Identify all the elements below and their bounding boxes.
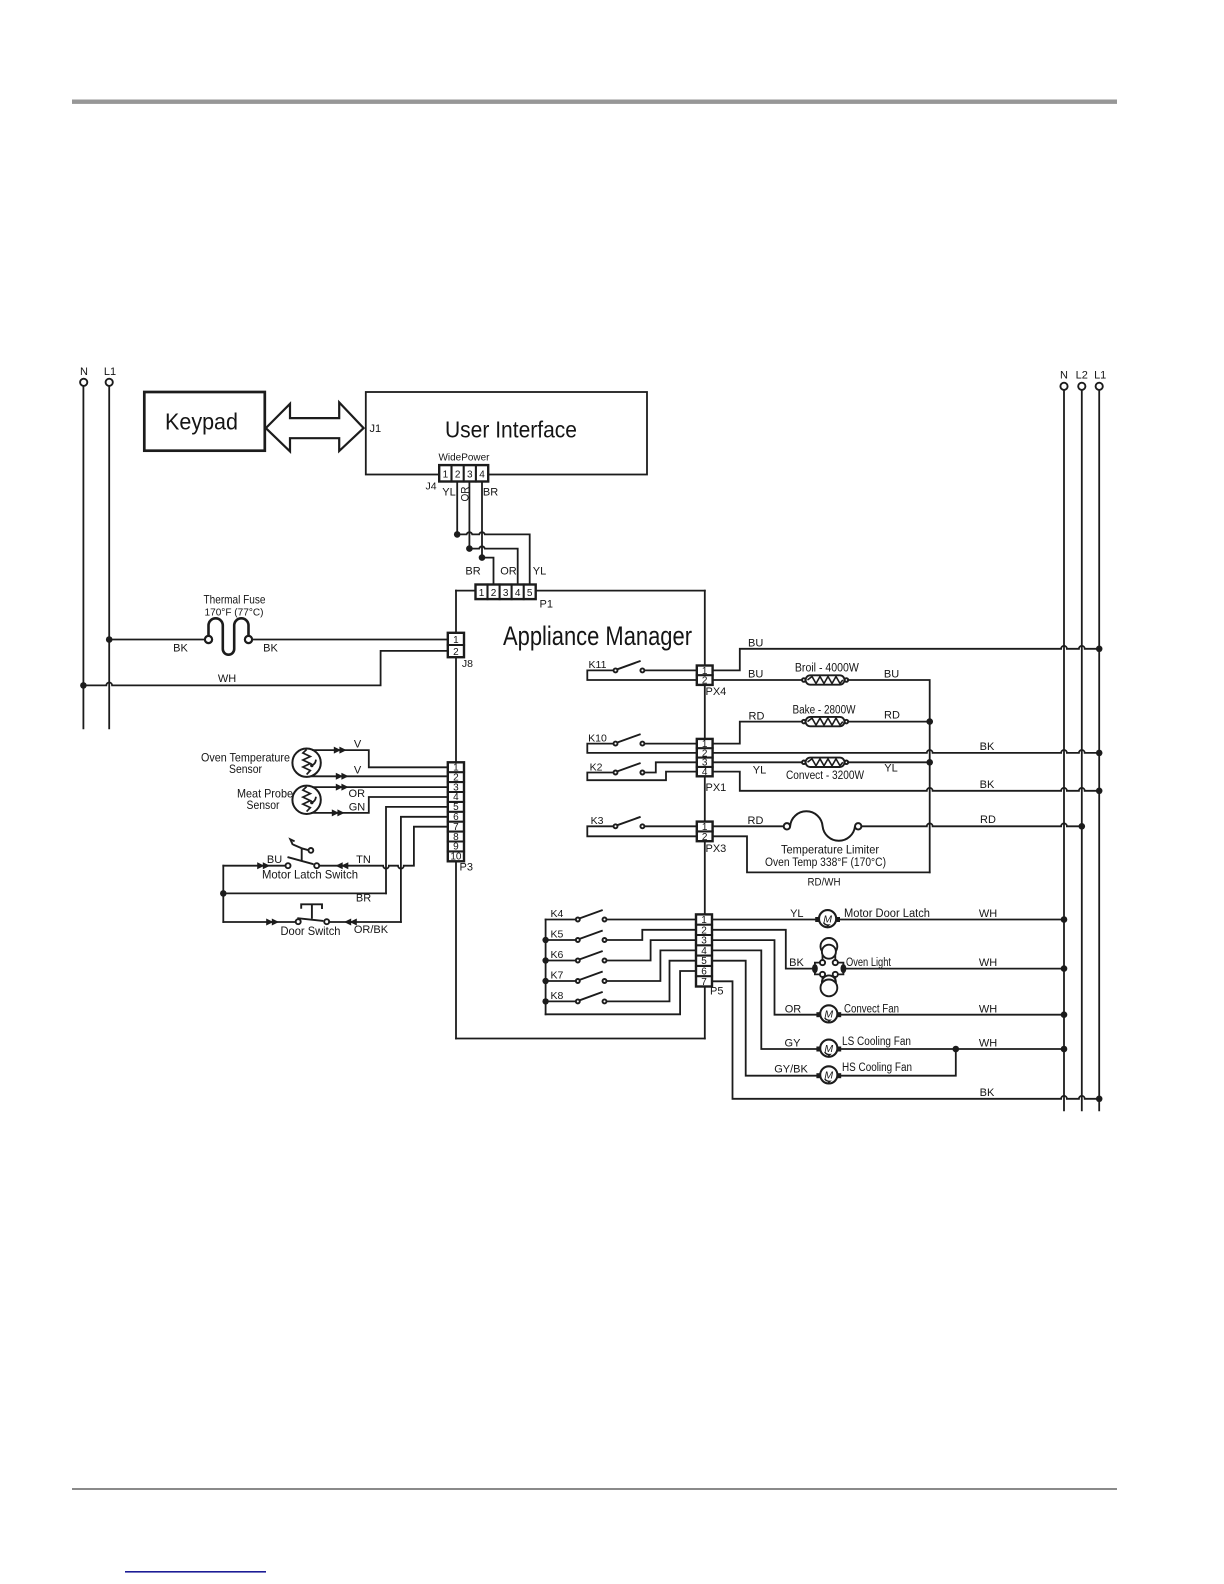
- svg-text:OR: OR: [349, 788, 366, 800]
- node L1 (right supply): [1094, 370, 1106, 1111]
- junction dot WH/N: [1061, 916, 1068, 923]
- motor latch switch S1: [286, 839, 320, 868]
- svg-text:OR: OR: [500, 566, 517, 578]
- junction dot YL: [454, 531, 461, 538]
- svg-text:YL: YL: [790, 908, 803, 920]
- junction dot K7/bus: [542, 978, 548, 984]
- svg-text:Motor Latch Switch: Motor Latch Switch: [262, 868, 358, 882]
- svg-text:Door Switch: Door Switch: [281, 924, 341, 938]
- wire WH convect fan to N: [841, 1014, 1064, 1016]
- wire bake feed PX1 pin1 up to element: [713, 722, 803, 744]
- thermal fuse F1: [205, 618, 252, 654]
- svg-text:3: 3: [467, 470, 473, 481]
- svg-text:YL: YL: [884, 763, 897, 775]
- wire K3 left loop to PX3 pin2: [587, 826, 697, 836]
- svg-text:K5: K5: [550, 929, 563, 941]
- svg-text:4: 4: [479, 470, 485, 481]
- junction dot BK1/L1: [1096, 750, 1103, 757]
- junction dot BR/bus: [220, 890, 227, 897]
- junction dot WH/N: [1061, 1011, 1068, 1018]
- svg-text:User Interface: User Interface: [445, 417, 577, 443]
- svg-text:L2: L2: [1076, 370, 1088, 382]
- svg-text:YL: YL: [442, 487, 455, 499]
- wire YL P5 pin1 to door latch motor: [712, 919, 816, 921]
- junction dot BR: [479, 554, 486, 561]
- svg-text:GY: GY: [785, 1037, 802, 1049]
- wire BK P5 pin2 to oven light: [712, 930, 812, 969]
- svg-text:Oven Temp 338°F (170°C): Oven Temp 338°F (170°C): [765, 857, 886, 869]
- svg-text:3: 3: [503, 588, 509, 599]
- wire WH oven light to N: [846, 968, 1064, 970]
- connector J4: [439, 465, 488, 481]
- svg-text:1: 1: [443, 470, 449, 481]
- junction dot K8/bus: [542, 998, 548, 1004]
- svg-text:RD: RD: [749, 710, 765, 722]
- wire K6 left: [546, 960, 576, 962]
- heating element Bake: [802, 717, 848, 726]
- wire K7 left: [546, 980, 576, 982]
- arrow OR: [341, 784, 348, 791]
- svg-text:J8: J8: [462, 658, 473, 670]
- wire K10 right to PX1 pin1: [644, 743, 696, 745]
- top page rule: [72, 100, 1117, 104]
- junction dot K6/bus: [542, 957, 548, 963]
- svg-text:YL: YL: [533, 566, 546, 578]
- motor M2 convect fan: [816, 1005, 841, 1022]
- wire K3 right to PX3 pin1: [644, 825, 696, 827]
- Appliance Manager box outline: [456, 591, 705, 1039]
- svg-text:WH: WH: [979, 1037, 997, 1049]
- wire K11 right to PX4 pin1: [644, 669, 696, 671]
- arrow GN: [337, 809, 344, 816]
- junction dot BU/L1: [1096, 646, 1103, 653]
- svg-text:Broil - 4000W: Broil - 4000W: [795, 663, 859, 675]
- svg-text:2: 2: [453, 647, 459, 658]
- svg-text:Convect Fan: Convect Fan: [844, 1003, 899, 1015]
- svg-text:Thermal Fuse: Thermal Fuse: [204, 593, 266, 607]
- svg-text:BK: BK: [263, 643, 278, 655]
- temperature limiter S3: [784, 811, 862, 841]
- K bus vertical: [545, 920, 547, 1015]
- junction dot WH/N: [1061, 965, 1068, 972]
- relay contact K11: [589, 659, 645, 672]
- svg-text:1: 1: [453, 635, 459, 646]
- svg-text:4: 4: [702, 767, 708, 778]
- svg-text:1: 1: [479, 588, 485, 599]
- wire RD/WH PX3 pin2 to common vertical: [713, 836, 930, 872]
- svg-text:Keypad: Keypad: [165, 409, 238, 435]
- wire broil right to common vertical: [848, 680, 930, 872]
- svg-text:P5: P5: [710, 986, 723, 998]
- node N (right supply): [1060, 370, 1068, 1111]
- svg-text:BK: BK: [980, 779, 995, 791]
- wire K8 right to P5 pin5: [607, 961, 697, 1002]
- svg-text:HS Cooling Fan: HS Cooling Fan: [842, 1062, 912, 1074]
- svg-text:K7: K7: [550, 970, 563, 982]
- svg-text:4: 4: [515, 588, 521, 599]
- wire J4 pin4 drop (BR): [481, 482, 483, 558]
- svg-text:V: V: [354, 739, 362, 751]
- svg-text:L1: L1: [104, 366, 116, 378]
- junction dot N/WH: [80, 682, 87, 689]
- svg-text:K3: K3: [591, 815, 604, 827]
- wire K6 right to P5 pin3: [607, 940, 697, 960]
- meat probe sensor RT2: [237, 786, 321, 814]
- wire L1 left drop: [108, 386, 110, 728]
- svg-text:RD: RD: [980, 814, 996, 826]
- svg-text:L1: L1: [1094, 370, 1106, 382]
- wire GN to P3 pin4: [312, 797, 448, 813]
- arrow door left: [266, 919, 273, 926]
- svg-text:N: N: [1060, 370, 1068, 382]
- wire P3 pin7 to motor latch (TN) with hops: [319, 827, 448, 869]
- wire door switch row left: [223, 921, 295, 923]
- svg-text:Bake - 2800W: Bake - 2800W: [793, 705, 856, 717]
- svg-text:K8: K8: [550, 990, 563, 1002]
- relay contact K2: [590, 761, 645, 774]
- wire RD limiter to L2 with hops: [861, 823, 1081, 826]
- svg-text:K6: K6: [550, 949, 563, 961]
- svg-text:Oven Light: Oven Light: [846, 957, 892, 969]
- wire OR P5 pin3 to convect fan: [712, 940, 817, 1015]
- svg-text:K2: K2: [590, 761, 603, 773]
- junction dot HS join: [953, 1046, 960, 1053]
- wire YL to P1 pin5 with hops: [457, 532, 530, 584]
- double arrow Keypad to User Interface: [266, 402, 364, 451]
- wire OR/BK door switch to pin6 drop: [329, 921, 401, 923]
- connector P5: [696, 914, 712, 987]
- svg-text:J4: J4: [425, 481, 436, 493]
- motor M1 door latch: [815, 910, 840, 927]
- wire K4 left to bus: [546, 919, 576, 921]
- connector PX3: [697, 822, 713, 843]
- motor M4 HS cooling fan: [816, 1066, 841, 1083]
- relay contact K10: [588, 732, 644, 745]
- wire bake right to common vertical: [848, 721, 930, 723]
- connector P1: [476, 585, 536, 600]
- relay contact K5: [550, 929, 606, 942]
- svg-text:LS Cooling Fan: LS Cooling Fan: [842, 1036, 911, 1048]
- wire BK from fuse to J8 pin1: [252, 639, 448, 641]
- svg-text:BK: BK: [789, 957, 804, 969]
- relay contact K8: [550, 990, 606, 1003]
- svg-text:BR: BR: [356, 893, 371, 905]
- svg-text:BK: BK: [980, 741, 995, 753]
- svg-text:BR: BR: [465, 566, 480, 578]
- svg-text:5: 5: [527, 588, 533, 599]
- svg-text:K11: K11: [589, 659, 607, 671]
- wire BR to P1 pin2: [482, 558, 494, 585]
- wire BU from PX4 pin1 up to L1 with hops: [713, 646, 1100, 671]
- wire K5 right to P5 pin2: [607, 930, 697, 940]
- junction dot convect/common: [926, 759, 933, 766]
- wire K8 left: [546, 1000, 576, 1002]
- svg-text:V: V: [354, 765, 362, 777]
- motor M3 LS cooling fan: [816, 1040, 841, 1057]
- left bus vertical: [222, 866, 224, 922]
- connector PX1: [697, 739, 713, 778]
- svg-text:K4: K4: [550, 908, 563, 920]
- svg-text:BK: BK: [980, 1087, 995, 1099]
- junction dot RD/L2: [1079, 823, 1086, 830]
- svg-text:2: 2: [491, 588, 497, 599]
- arrow V top: [339, 747, 346, 754]
- node N (left supply): [80, 366, 88, 728]
- wire P3 pin5 to BR row: [386, 807, 448, 894]
- wire BK from L1 to fuse: [109, 639, 205, 641]
- wire K11 left loop to PX4 pin2: [587, 670, 697, 680]
- svg-text:BU: BU: [267, 854, 282, 866]
- svg-text:BU: BU: [748, 668, 763, 680]
- svg-text:GN: GN: [349, 802, 366, 814]
- relay contact K3: [591, 815, 645, 828]
- svg-text:2: 2: [455, 470, 461, 481]
- wire BK P5 pin7 to L1 with hops: [712, 981, 1099, 1099]
- relay contact K4: [550, 908, 606, 921]
- wire GY P5 pin4 to LS cooling fan: [712, 950, 817, 1049]
- bottom page rule: [72, 1488, 1117, 1490]
- wire OR to P3 pin3: [313, 786, 448, 788]
- wire K7 right to P5 pin4: [607, 950, 697, 981]
- User Interface block: [366, 392, 647, 475]
- svg-text:Sensor: Sensor: [229, 762, 262, 776]
- Keypad block: [144, 392, 264, 451]
- wire BK PX1 pin2 to L1 with hops: [713, 750, 1100, 753]
- footer link underline: [125, 1571, 266, 1573]
- wire K5 left: [546, 939, 576, 941]
- svg-text:N: N: [80, 366, 88, 378]
- arrow V bottom: [341, 773, 348, 780]
- svg-text:170°F (77°C): 170°F (77°C): [205, 607, 264, 619]
- svg-text:PX4: PX4: [706, 686, 727, 698]
- wire YL PX1 pin3 to convect element: [713, 761, 803, 763]
- junction dot bake/common: [926, 718, 933, 725]
- wire K4 right to P5 pin1: [607, 919, 697, 921]
- svg-text:WH: WH: [979, 1003, 997, 1015]
- svg-text:Appliance Manager: Appliance Manager: [503, 621, 692, 651]
- wire N left drop: [82, 386, 84, 728]
- oven light L1a/L1b: [812, 938, 846, 996]
- junction dot BK2/L1: [1096, 788, 1103, 795]
- relay contact K6: [550, 949, 606, 962]
- svg-text:7: 7: [701, 977, 707, 988]
- svg-text:BR: BR: [483, 487, 498, 499]
- connector J8: [448, 633, 464, 658]
- svg-text:Motor Door Latch: Motor Door Latch: [844, 908, 930, 920]
- svg-text:WH: WH: [979, 957, 997, 969]
- svg-text:Temperature Limiter: Temperature Limiter: [781, 843, 879, 857]
- svg-text:WH: WH: [218, 673, 236, 685]
- wire V bottom to P3 pin2: [312, 775, 448, 777]
- wire BU from left bus to latch switch: [223, 865, 285, 867]
- svg-text:TN: TN: [356, 854, 371, 866]
- wire P3 pin6 to door switch (OR/BK): [401, 817, 448, 922]
- svg-text:YL: YL: [753, 765, 766, 777]
- wire RD PX3 pin1 to limiter: [713, 825, 784, 827]
- connector PX4: [697, 666, 713, 687]
- junction dot WH/N: [1061, 1046, 1068, 1053]
- junction dot BK/L1: [1096, 1096, 1103, 1103]
- wire J4 pin2 drop (YL): [456, 482, 458, 535]
- svg-text:Sensor: Sensor: [247, 798, 280, 812]
- wire BK PX1 pin4 to L1 with hops: [713, 772, 1100, 791]
- svg-text:2: 2: [702, 832, 708, 843]
- wire GY/BK P5 pin5 to HS cooling fan: [712, 961, 817, 1076]
- wire K2 left loop to PX1 pin4: [587, 772, 697, 781]
- node L1 (left supply): [104, 366, 116, 728]
- svg-text:WidePower: WidePower: [439, 452, 490, 464]
- svg-text:PX3: PX3: [706, 843, 727, 855]
- arrow door right: [344, 919, 351, 926]
- svg-text:PX1: PX1: [706, 782, 727, 794]
- connector P3: [448, 762, 464, 862]
- svg-text:WH: WH: [979, 908, 997, 920]
- svg-text:RD/WH: RD/WH: [808, 876, 841, 888]
- wire convect right to common vertical: [848, 761, 930, 763]
- wire V top to P3 pin1: [313, 750, 448, 767]
- heating element Broil: [802, 675, 848, 684]
- wire WH door latch to N: [840, 919, 1064, 921]
- svg-text:RD: RD: [884, 710, 900, 722]
- svg-text:P3: P3: [460, 862, 473, 874]
- junction dot K5/bus: [542, 937, 548, 943]
- wire WH LS fan to N: [841, 1048, 1064, 1050]
- svg-text:P1: P1: [540, 599, 553, 611]
- svg-text:GY/BK: GY/BK: [774, 1063, 808, 1075]
- relay contact K7: [550, 970, 606, 983]
- wire K2 right step up to PX1 pin3: [644, 762, 696, 772]
- door switch S2: [296, 904, 330, 924]
- junction dot OR: [466, 545, 473, 552]
- svg-text:K10: K10: [588, 732, 607, 744]
- oven temperature sensor RT1: [201, 749, 321, 777]
- arrow BU: [257, 862, 264, 869]
- svg-text:Convect - 3200W: Convect - 3200W: [786, 770, 864, 782]
- svg-text:OR/BK: OR/BK: [354, 924, 389, 936]
- wire BR row to left bus: [223, 892, 386, 894]
- wire BU PX4 pin2 to broil element: [713, 679, 803, 681]
- wire WH from N to J8 pin2 with hop over L1: [83, 651, 447, 686]
- svg-text:OR: OR: [785, 1003, 802, 1015]
- svg-text:J1: J1: [370, 423, 382, 435]
- svg-text:BK: BK: [173, 643, 188, 655]
- svg-text:RD: RD: [748, 815, 764, 827]
- node L2 (right supply): [1076, 370, 1088, 1111]
- wire HS fan up to LS row: [841, 1049, 956, 1076]
- arrow TN toward switch: [336, 862, 343, 869]
- wire J4 pin3 drop (OR): [468, 482, 470, 549]
- wire OR to P1 pin4 with hop: [469, 546, 517, 584]
- wire K bus bottom to P5 pin6: [546, 971, 696, 1014]
- svg-text:BU: BU: [748, 638, 763, 650]
- junction dot L1/BK: [106, 636, 113, 643]
- wire K10 left loop to PX1 pin2: [587, 744, 697, 753]
- svg-text:BU: BU: [884, 668, 899, 680]
- heating element Convect: [802, 758, 848, 767]
